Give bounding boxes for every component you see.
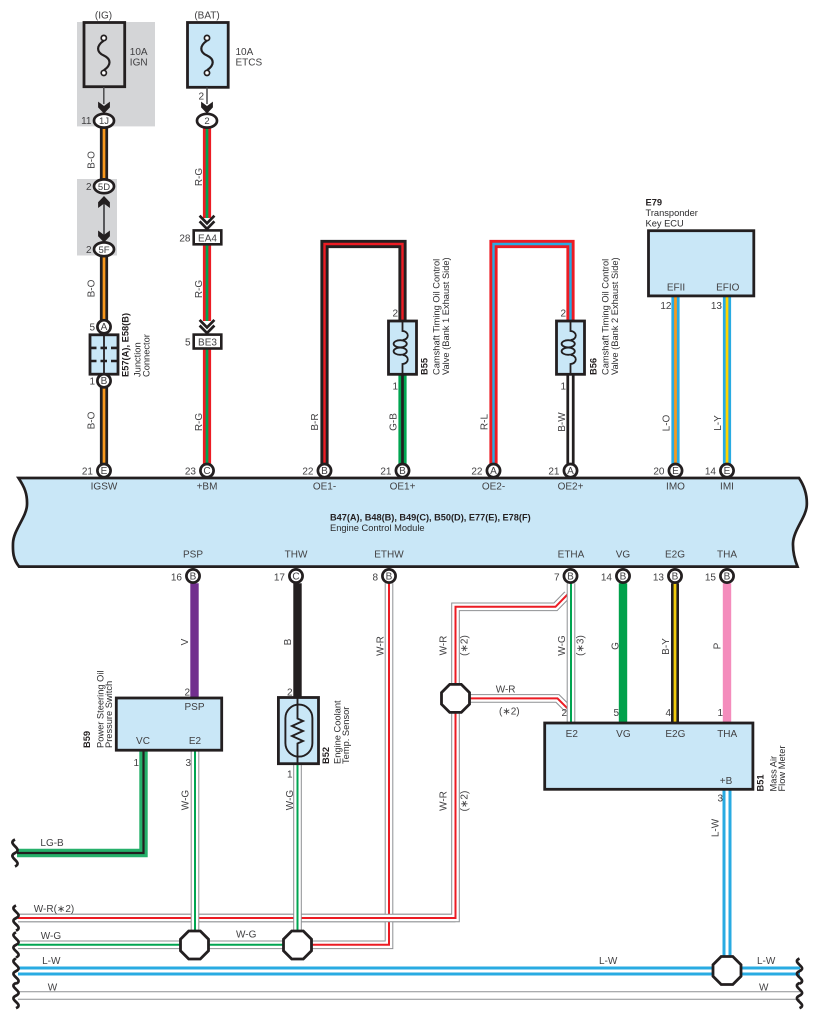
ECM B47(A),B48(B),B49(C),B50(D),E77(E),E78(F) Engine Control Module	[13, 478, 807, 567]
fuse 10A IGN	[84, 10, 148, 104]
svg-text:IGN: IGN	[130, 58, 148, 69]
wire B-O segment 5F to A	[100, 256, 108, 321]
wire R-G segment oval2 to EA4	[203, 128, 211, 219]
node 21(B) OE1+	[380, 464, 409, 477]
node 2(5F)	[86, 242, 114, 256]
bus W-R(*2)	[18, 914, 456, 923]
svg-text:B: B	[672, 571, 679, 582]
svg-text:B: B	[283, 638, 294, 645]
meter B51 Mass Air Flow Meter	[545, 708, 787, 805]
node 17(C) THW	[274, 569, 303, 583]
wire W-G(*3) ETHA 7(B) down to MAF pin2 E2	[567, 583, 576, 723]
svg-text:OE2-: OE2-	[482, 482, 505, 493]
svg-text:Valve (Bank 2 Exhaust Side): Valve (Bank 2 Exhaust Side)	[610, 257, 620, 375]
node 14(B) VG	[601, 569, 630, 583]
sensor B52 Engine Coolant Temp. Sensor	[278, 688, 351, 781]
svg-text:5: 5	[185, 338, 191, 349]
svg-text:B: B	[399, 466, 406, 477]
svg-text:3: 3	[717, 794, 723, 805]
node 8(B) ETHW	[372, 569, 395, 583]
svg-text:1: 1	[560, 382, 566, 393]
svg-text:THW: THW	[285, 550, 308, 561]
double chevron arrow into BE3	[200, 320, 215, 335]
svg-text:Pressure Switch: Pressure Switch	[104, 681, 114, 748]
svg-text:1: 1	[392, 382, 398, 393]
node 20(E) IMO	[653, 464, 682, 477]
svg-text:B: B	[620, 571, 627, 582]
svg-text:28: 28	[179, 234, 191, 245]
svg-text:L-W: L-W	[42, 956, 61, 967]
node 16(B) PSP	[171, 569, 200, 583]
svg-text:IGSW: IGSW	[91, 482, 118, 493]
svg-text:1J: 1J	[99, 116, 109, 127]
svg-text:PSP: PSP	[184, 702, 204, 713]
wire W-R from octagon2 to ETHW corner up to ECM pin 8(B)	[298, 583, 390, 945]
junction connector E57(A), E58(B)	[90, 313, 152, 377]
svg-text:C: C	[203, 466, 210, 477]
svg-text:OE1-: OE1-	[313, 482, 336, 493]
svg-text:Engine Control Module: Engine Control Module	[330, 523, 425, 533]
svg-text:E: E	[724, 466, 731, 477]
svg-text:21: 21	[380, 466, 392, 477]
svg-text:2: 2	[198, 91, 204, 102]
junction octagon O1 (W-G splice under PSP)	[181, 931, 209, 959]
svg-text:2: 2	[561, 708, 567, 719]
svg-text:W-G: W-G	[285, 790, 296, 811]
node 1(B) junction bottom	[89, 374, 110, 387]
svg-text:22: 22	[471, 466, 483, 477]
svg-text:Flow Meter: Flow Meter	[777, 746, 787, 792]
wire LG-B from B59 VC pin1 to left edge	[17, 750, 144, 853]
svg-text:B47(A), B48(B), B49(C), B50(D): B47(A), B48(B), B49(C), B50(D), E77(E), …	[330, 512, 531, 522]
wire W-G from B52 pin1 down to octagon2	[293, 764, 302, 945]
break L-W bus right	[797, 959, 802, 984]
valve B55 Camshaft Timing Oil Control Valve (Bank 1 Exhaust Side)	[389, 257, 451, 392]
svg-text:21: 21	[82, 466, 94, 477]
node 22(B) OE1-	[302, 464, 331, 477]
node 5(A) junction top	[89, 320, 110, 333]
wire R-G segment EA4 to BE3	[203, 244, 211, 321]
svg-text:B56: B56	[589, 358, 599, 375]
wire G from ECM 14(B) to MAF VG pin5	[619, 583, 627, 723]
switch B59 Power Steering Oil Pressure Switch	[82, 670, 222, 769]
svg-text:B: B	[101, 376, 108, 387]
svg-text:5: 5	[613, 708, 619, 719]
wire W-R(*2) from octagon3 right to MAF E2 join	[456, 698, 568, 708]
svg-text:W-R: W-R	[376, 636, 387, 656]
svg-text:21: 21	[548, 466, 560, 477]
svg-text:VC: VC	[136, 736, 150, 747]
svg-text:11: 11	[81, 116, 92, 127]
svg-text:ETHW: ETHW	[374, 550, 404, 561]
svg-text:23: 23	[185, 466, 197, 477]
svg-text:E2G: E2G	[665, 729, 685, 740]
svg-text:ETCS: ETCS	[236, 58, 263, 69]
svg-text:B55: B55	[420, 358, 430, 375]
svg-text:IMI: IMI	[720, 482, 734, 493]
svg-text:13: 13	[711, 301, 723, 312]
svg-text:EFIO: EFIO	[716, 282, 740, 293]
svg-text:(∗2): (∗2)	[460, 635, 471, 656]
svg-text:G: G	[610, 642, 621, 650]
svg-text:EA4: EA4	[198, 234, 217, 245]
svg-text:R-L: R-L	[479, 414, 490, 431]
node 23(C) +BM	[185, 464, 214, 477]
svg-text:3: 3	[185, 758, 191, 769]
svg-text:ETHA: ETHA	[558, 550, 585, 561]
svg-text:A: A	[101, 322, 108, 333]
svg-text:5D: 5D	[98, 182, 110, 193]
svg-text:14: 14	[601, 572, 613, 583]
svg-text:Connector: Connector	[142, 334, 152, 377]
svg-text:W-R: W-R	[439, 791, 450, 811]
connector 28 EA4	[179, 230, 221, 244]
svg-text:+B: +B	[720, 776, 733, 787]
wire W-R(*2) vertical x=455.5: ETHA branch down to W-R bus	[18, 595, 568, 919]
svg-text:L-Y: L-Y	[713, 415, 724, 431]
gray background block around IGN fuse	[77, 22, 155, 126]
svg-text:C: C	[292, 571, 299, 582]
svg-text:B-O: B-O	[87, 151, 98, 169]
svg-text:8: 8	[372, 572, 378, 583]
svg-text:(BAT): (BAT)	[194, 10, 219, 21]
svg-text:B-Y: B-Y	[661, 638, 672, 655]
svg-text:P: P	[713, 642, 724, 649]
junction octagon O4 (L-W splice)	[713, 957, 741, 985]
wire L-W from MAF +B pin3 down to octagon4	[723, 789, 732, 970]
svg-text:B-O: B-O	[87, 411, 98, 429]
svg-text:R-G: R-G	[194, 280, 205, 299]
svg-text:B: B	[190, 571, 197, 582]
svg-text:E: E	[672, 466, 679, 477]
junction octagon O3 (W-R splice)	[442, 684, 470, 712]
svg-text:VG: VG	[616, 550, 631, 561]
svg-text:Key ECU: Key ECU	[646, 218, 684, 228]
svg-text:Transponder: Transponder	[646, 208, 698, 218]
svg-text:14: 14	[705, 466, 717, 477]
svg-text:E: E	[101, 466, 108, 477]
fuse 10A ETCS	[188, 10, 263, 104]
wire L-Y from E79 EFIO pin13 to ECM 14(E)	[723, 296, 731, 464]
svg-text:13: 13	[653, 572, 665, 583]
svg-text:L-W: L-W	[757, 956, 776, 967]
svg-text:(∗3): (∗3)	[576, 635, 587, 656]
svg-text:B-W: B-W	[557, 412, 568, 432]
svg-text:4: 4	[665, 708, 671, 719]
svg-text:B-O: B-O	[87, 279, 98, 297]
svg-text:2: 2	[204, 116, 209, 127]
svg-text:20: 20	[653, 466, 665, 477]
connector 5 BE3	[185, 335, 221, 349]
svg-text:OE2+: OE2+	[558, 482, 584, 493]
svg-text:1: 1	[717, 708, 723, 719]
wire R-L from ECM 22(A) up over to B56 pin2	[494, 244, 571, 464]
svg-text:E79: E79	[646, 197, 663, 207]
svg-text:Valve (Bank 1 Exhaust Side): Valve (Bank 1 Exhaust Side)	[441, 257, 451, 375]
junction octagon O2 (W-G/W-R splice under B52)	[284, 931, 312, 959]
break W-G bus	[13, 932, 18, 957]
svg-text:THA: THA	[717, 729, 737, 740]
break W bus	[13, 983, 18, 1008]
arrow into 1J	[98, 102, 110, 114]
svg-text:W: W	[759, 983, 769, 994]
svg-text:G-B: G-B	[389, 413, 400, 431]
wire B-R from ECM 22(B) up over to B55 pin2	[325, 244, 403, 464]
node 13(B) E2G	[653, 569, 682, 583]
svg-text:B: B	[567, 571, 574, 582]
node 2(5D)	[86, 179, 114, 193]
bus L-W	[18, 967, 800, 976]
svg-text:2: 2	[560, 309, 566, 320]
svg-text:W-G: W-G	[181, 790, 192, 811]
svg-text:2: 2	[86, 245, 92, 256]
svg-text:B: B	[321, 466, 328, 477]
wire B from ECM 17(C) to B52 pin2	[293, 583, 301, 698]
wire B-Y from ECM 13(B) to MAF E2G pin4	[671, 583, 679, 723]
svg-text:B-R: B-R	[310, 413, 321, 430]
svg-text:B: B	[724, 571, 731, 582]
svg-text:EFII: EFII	[667, 282, 685, 293]
connector link 5D-5F with arrows	[98, 196, 110, 243]
svg-text:2: 2	[86, 182, 92, 193]
svg-text:LG-B: LG-B	[40, 838, 64, 849]
svg-text:E2: E2	[189, 736, 202, 747]
svg-text:16: 16	[171, 572, 183, 583]
wire B-O segment B to ECM 21(E)	[100, 387, 108, 464]
svg-text:E57(A), E58(B): E57(A), E58(B)	[121, 313, 131, 377]
svg-text:(∗2): (∗2)	[499, 707, 520, 718]
svg-text:1: 1	[133, 758, 139, 769]
svg-text:VG: VG	[616, 729, 631, 740]
svg-text:L-W: L-W	[599, 956, 618, 967]
svg-text:BE3: BE3	[198, 338, 217, 349]
node 21(A) OE2+	[548, 464, 577, 477]
svg-text:W: W	[48, 983, 58, 994]
svg-text:W-G: W-G	[41, 931, 62, 942]
svg-text:5: 5	[89, 322, 95, 333]
break LG-B	[12, 840, 17, 867]
wire V from ECM 16(B) to B59 PSP pin2	[190, 583, 198, 698]
svg-text:E2G: E2G	[665, 550, 685, 561]
wire B-W from B56 pin1 to ECM 21(A)	[566, 374, 574, 464]
svg-text:12: 12	[660, 301, 672, 312]
svg-text:W-G: W-G	[236, 930, 257, 941]
gray background block around 5D/5F connectors	[77, 179, 117, 256]
svg-text:A: A	[567, 466, 574, 477]
svg-text:15: 15	[705, 572, 717, 583]
svg-text:OE1+: OE1+	[390, 482, 416, 493]
svg-text:B51: B51	[756, 774, 766, 791]
svg-text:Temp. Sensor: Temp. Sensor	[341, 707, 351, 764]
node 22(A) OE2-	[471, 464, 500, 477]
svg-text:R-G: R-G	[194, 168, 205, 187]
svg-text:(IG): (IG)	[95, 10, 112, 21]
svg-text:22: 22	[302, 466, 314, 477]
node 14(E) IMI	[705, 464, 734, 477]
break W bus right	[797, 983, 802, 1008]
svg-text:B: B	[386, 571, 393, 582]
wire W-G from PSP E2 pin3 down to octagon1	[191, 750, 200, 945]
svg-text:1: 1	[89, 376, 95, 387]
ECU E79 Transponder Key ECU	[646, 197, 754, 312]
svg-text:B52: B52	[321, 747, 331, 764]
svg-text:W-R: W-R	[496, 685, 516, 696]
break L-W bus	[13, 959, 18, 984]
svg-text:W-R: W-R	[439, 636, 450, 656]
svg-text:2: 2	[392, 309, 398, 320]
svg-text:+BM: +BM	[197, 482, 218, 493]
svg-text:10A: 10A	[130, 47, 148, 58]
svg-text:L-O: L-O	[662, 414, 673, 431]
node 21(E) IGSW	[82, 464, 111, 477]
valve B56 Camshaft Timing Oil Control Valve (Bank 2 Exhaust Side)	[557, 257, 620, 392]
wire G-B from B55 pin1 to ECM 21(B)	[398, 374, 406, 464]
svg-text:17: 17	[274, 572, 286, 583]
bus W-G	[18, 940, 298, 949]
svg-text:10A: 10A	[236, 47, 254, 58]
svg-text:V: V	[180, 638, 191, 645]
wire P from ECM 15(B) to MAF THA pin1	[723, 583, 731, 723]
svg-text:B59: B59	[82, 731, 92, 748]
svg-text:E2: E2	[566, 729, 579, 740]
wire L-O from E79 EFII pin12 to ECM 20(E)	[671, 296, 679, 464]
svg-text:7: 7	[554, 572, 560, 583]
node 11(1J)	[81, 114, 114, 128]
svg-text:1: 1	[287, 770, 293, 781]
bus W	[18, 991, 800, 1000]
svg-text:L-W: L-W	[711, 818, 722, 837]
wire R-G segment BE3 to ECM 23(C)	[203, 348, 211, 464]
double chevron arrow into EA4	[200, 216, 215, 231]
svg-text:A: A	[490, 466, 497, 477]
svg-text:W-G: W-G	[557, 635, 568, 656]
svg-text:5F: 5F	[98, 245, 109, 256]
svg-text:THA: THA	[717, 550, 737, 561]
svg-text:R-G: R-G	[194, 413, 205, 432]
node 2 (battery oval)	[197, 114, 217, 128]
svg-text:IMO: IMO	[666, 482, 685, 493]
svg-text:PSP: PSP	[183, 550, 203, 561]
node 7(B) ETHA	[554, 569, 577, 583]
svg-text:(∗2): (∗2)	[460, 791, 471, 812]
break W-R bus	[13, 906, 18, 931]
wire B-O segment 1J to 5D	[100, 128, 108, 180]
node 15(B) THA	[705, 569, 734, 583]
svg-text:W-R(∗2): W-R(∗2)	[34, 904, 74, 915]
arrow into node 2	[201, 102, 213, 114]
